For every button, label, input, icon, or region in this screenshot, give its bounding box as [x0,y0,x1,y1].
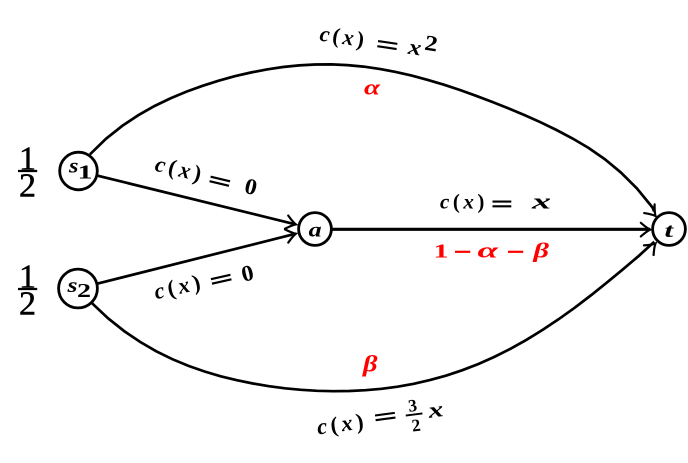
label: c(x) = x^2 on top edge [318,14,439,62]
svg-text:2: 2 [77,280,91,302]
svg-text:β: β [532,238,549,262]
svg-text:x: x [425,396,444,423]
svg-text:β: β [362,352,378,377]
svg-text:α: α [478,237,500,262]
svg-text:2: 2 [423,30,440,57]
svg-text:s: s [66,273,77,297]
arrowhead of a-t edge into t [641,223,651,237]
svg-text:2: 2 [19,168,36,205]
node s1 [60,152,98,190]
svg-text:2: 2 [410,415,421,436]
label: c(x) = x on a-t edge [440,189,551,214]
svg-text:0: 0 [242,173,260,200]
label: c(x) = 0 on s2-a edge [152,257,257,306]
svg-text:c(x): c(x) [153,151,208,187]
svg-text:c(x): c(x) [440,190,488,214]
arrowhead of top edge into t [644,204,661,220]
wire: straight edge s1 to a [98,176,296,225]
svg-text:c(x): c(x) [315,408,368,439]
svg-text:x: x [406,34,424,61]
wire: straight edge a to t [332,228,651,231]
svg-text:1: 1 [434,240,449,262]
label: c(x) = 0 on s1-a edge [153,151,260,200]
svg-text:1: 1 [78,162,93,184]
node s2 [59,269,98,308]
node t [653,213,686,246]
arrowhead of bottom edge into t [644,239,660,255]
node a [299,213,332,246]
wire: bottom curved edge s2 to t [92,242,654,391]
wire: straight edge s2 to a [97,234,296,284]
svg-text:c(x): c(x) [318,21,369,53]
label: fraction 1/2 beside s1 [18,141,37,205]
svg-text:0: 0 [239,260,256,287]
svg-text:2: 2 [19,286,36,323]
label: c(x) = 3/2 x on bottom edge [315,392,447,448]
arrowhead of s2-a edge into a [285,227,298,243]
label: fraction 1/2 beside s2 [18,259,37,323]
svg-text:3: 3 [407,395,419,416]
svg-text:a: a [309,217,322,241]
wire: top curved edge s1 to t [90,64,654,211]
svg-text:α: α [364,75,381,100]
svg-text:x: x [530,189,551,214]
arrowhead of s1-a edge into a [285,216,297,231]
svg-text:c(x): c(x) [152,269,207,305]
label: 1 - alpha - beta on a-t edge [434,237,550,262]
